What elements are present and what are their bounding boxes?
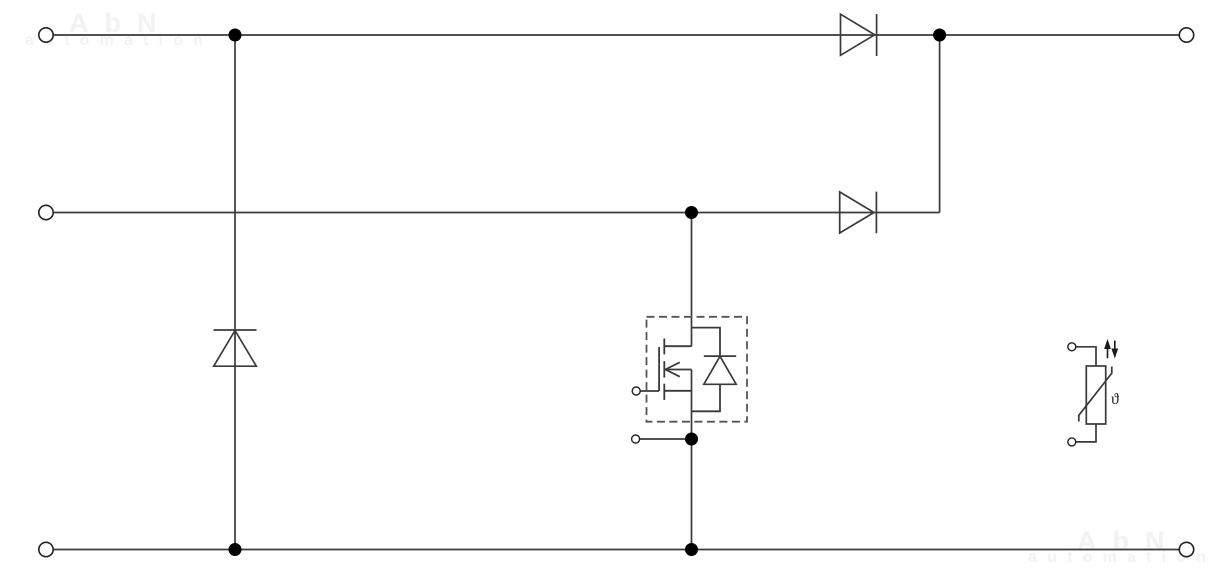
Q1 drain lead (664, 345, 691, 347)
terminal X4 (top right) (1179, 28, 1193, 42)
diode D3 (middle, pointing right) (840, 192, 877, 234)
Q1 gate bar (658, 347, 660, 391)
Q1 source lead (664, 390, 691, 392)
junction at (940,35) (933, 29, 946, 42)
RT1 top lead (1076, 347, 1096, 366)
Q1 source channel bar (663, 384, 665, 400)
wire left branch x=235 (234, 35, 236, 550)
dashed box around Q1 (647, 317, 748, 422)
terminal G2 (632, 435, 640, 443)
terminal RT1 top (1068, 343, 1076, 351)
junction at (691.5,549.5) (685, 543, 698, 556)
svg-text:ϑ: ϑ (1111, 391, 1119, 408)
wire source to body-diode bottom (692, 384, 721, 411)
terminal G1 (gate) (632, 387, 640, 395)
Q1 gate lead (640, 390, 659, 392)
wire center branch upper x=691.5 (691, 213, 693, 347)
arrow up (bidirectional marker) (1104, 339, 1111, 358)
wire center branch lower x=691.5 (691, 370, 693, 550)
diode D4 (body diode, pointing up) (704, 356, 736, 384)
Q1 drain channel bar (663, 339, 665, 355)
diode D2 (top, pointing right) (841, 14, 877, 56)
terminal X3 (bottom left) (39, 542, 53, 556)
junction at (691.5,439) (685, 433, 698, 446)
Q1 body channel bar (663, 361, 665, 378)
junction at (691.5,212.5) (685, 206, 698, 219)
junction at (235,35) (229, 29, 242, 42)
watermark automation bottom-right (1028, 550, 1216, 566)
watermark automation top-left (25, 33, 213, 49)
thermistor RT1 (1076, 347, 1112, 442)
transistor Q1 (N-MOSFET) (640, 328, 720, 412)
wire drain to body-diode top (692, 328, 721, 357)
wire top bus (54, 34, 1180, 36)
arrow down (bidirectional marker) (1111, 341, 1118, 359)
terminal X5 (bottom right) (1179, 542, 1193, 556)
terminal X1 (top left) (39, 28, 53, 42)
diode D1 (left, pointing up) (214, 330, 257, 366)
watermark AbN top-left (69, 10, 173, 37)
RT1 bottom lead (1076, 424, 1096, 442)
RT1 body (1086, 366, 1105, 424)
wire gate2 lead (640, 438, 692, 440)
terminal RT1 bottom (1068, 438, 1076, 446)
terminal X2 (middle left) (39, 205, 53, 219)
Q1 body lead with arrow (664, 369, 691, 371)
wire middle bus (54, 212, 940, 214)
wire bottom bus (54, 549, 1180, 551)
junction at (235,549.5) (229, 543, 242, 556)
wire right riser x=940 (939, 35, 941, 213)
watermark AbN bottom-right (1077, 528, 1181, 555)
RT1 diagonal stroke (1079, 367, 1112, 422)
